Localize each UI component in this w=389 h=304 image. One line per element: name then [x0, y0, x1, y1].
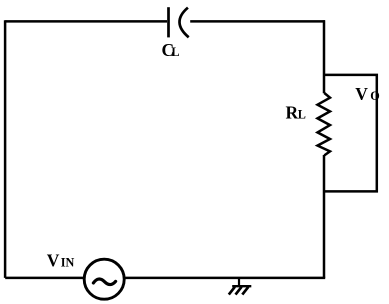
wire right vertical lower [323, 155, 326, 278]
svg-text:VIN: VIN [47, 250, 75, 270]
wire left vertical [4, 20, 7, 278]
node VO output loop wire [323, 75, 377, 191]
svg-text:RL: RL [286, 103, 306, 123]
wire bottom-left segment [5, 277, 83, 280]
resistor RL [318, 93, 331, 155]
svg-text:CL: CL [162, 40, 180, 60]
wire top-left segment [5, 20, 167, 23]
wire right vertical upper [323, 20, 326, 93]
ground stub [238, 278, 240, 286]
wire bottom-right segment [125, 277, 325, 280]
source VIN circle [84, 259, 124, 299]
ground chassis symbol [229, 286, 252, 294]
capacitor CL curved plate [179, 8, 188, 38]
wire top-right segment [190, 20, 325, 23]
source VIN sine symbol [93, 279, 115, 285]
capacitor CL straight plate [167, 7, 170, 37]
